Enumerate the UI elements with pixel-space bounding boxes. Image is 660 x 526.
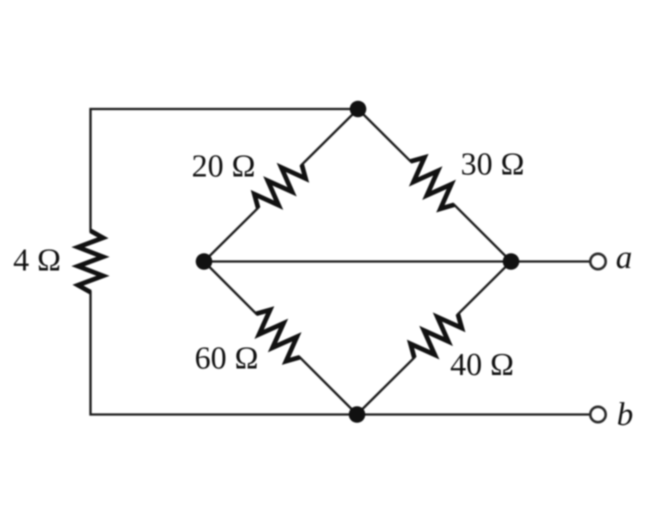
svg-text:40 Ω: 40 Ω — [450, 346, 514, 382]
svg-text:a: a — [616, 240, 633, 276]
svg-text:b: b — [617, 397, 634, 433]
svg-text:60 Ω: 60 Ω — [195, 340, 259, 376]
svg-text:20 Ω: 20 Ω — [192, 148, 256, 184]
svg-text:30 Ω: 30 Ω — [461, 146, 525, 182]
svg-text:4 Ω: 4 Ω — [13, 242, 61, 278]
